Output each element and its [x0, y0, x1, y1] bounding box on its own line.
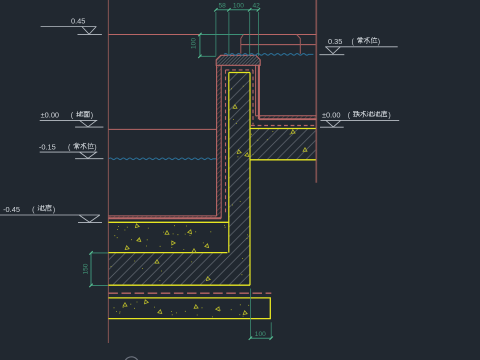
node notch left jamb [241, 35, 244, 54]
wire left cut line [107, 0, 109, 343]
wire footing bottom [108, 284, 250, 286]
svg-text:150: 150 [83, 263, 90, 274]
node level -0.45 pool bottom [0, 215, 102, 223]
svg-text:100: 100 [233, 3, 244, 10]
dimension 100 vertical left of coping [199, 35, 201, 57]
wire upper pool floor finish line 1 [256, 115, 317, 117]
svg-text:-0.45: -0.45 [3, 205, 20, 214]
node level ±0.00 drop pool bottom [320, 120, 399, 127]
wire wall left inner finish face [220, 65, 222, 218]
wire waterproofing dashed upper pool floor [251, 125, 316, 127]
wire ground level line [108, 128, 216, 130]
svg-text:): ) [388, 113, 390, 120]
node level 0.35 upper water [319, 47, 397, 55]
wire wall structural top [229, 72, 250, 74]
wire waterproofing dashed left face [225, 70, 227, 215]
svg-text:): ) [91, 113, 93, 120]
svg-text:±0.00: ±0.00 [41, 111, 59, 120]
svg-text:100: 100 [255, 331, 266, 338]
coping stone outline [216, 55, 260, 65]
node notch right jamb [297, 35, 301, 54]
coping stone hatch [216, 55, 260, 65]
wire weir wall top edge [108, 34, 316, 36]
node level -0.15 normal water [40, 152, 104, 159]
left finish strip hatch [217, 65, 222, 216]
svg-text:): ) [94, 145, 96, 152]
concrete texture dots [111, 86, 291, 317]
wire waterproofing dashed top [226, 69, 254, 71]
wire wall right inner finish face [255, 65, 257, 116]
wire lower pool slab top [108, 221, 228, 223]
dimension 100 cushion projection [249, 289, 251, 339]
wire upper pool slab top [250, 128, 316, 130]
wire lower pool water line [109, 158, 216, 160]
wire upper pool water line [224, 54, 313, 56]
wire wall right structural face [249, 73, 251, 286]
wire wall left structural face [228, 73, 230, 253]
svg-text:0.45: 0.45 [71, 17, 85, 26]
left floor finish hatch [108, 216, 221, 218]
dimension chain 58/100/42 top [216, 9, 259, 11]
wire wall right outer finish face [258, 65, 260, 119]
right floor finish hatch [256, 116, 317, 119]
svg-text:42: 42 [253, 3, 261, 10]
wire right cut line / weir outer face [315, 0, 317, 183]
cushion layer outline [108, 298, 270, 319]
node level ±0.00 ground [40, 120, 104, 127]
svg-text:): ) [378, 39, 380, 46]
wire waterproofing dashed under footing [108, 292, 271, 294]
wire upper pool floor finish line 2 [259, 118, 316, 120]
wire lower pool floor finish line 1 [108, 215, 216, 217]
concrete texture triangles [135, 224, 139, 228]
wire upper pool slab bottom [250, 159, 316, 161]
svg-text:): ) [53, 207, 55, 214]
wire lower pool slab bottom [108, 252, 227, 254]
wire lower pool floor finish line 2 [108, 217, 221, 219]
svg-text:±0.00: ±0.00 [322, 111, 340, 120]
concrete hatch: wall core, footing, upper-pool slab [108, 73, 316, 286]
node level 0.45 top of wall [41, 27, 102, 35]
wire weir crest line [241, 44, 316, 46]
svg-text:0.35: 0.35 [328, 37, 342, 46]
title bubble (clipped at bottom) [124, 357, 138, 360]
dimension 150 footing thickness [90, 253, 92, 286]
svg-text:-0.15: -0.15 [39, 143, 56, 152]
svg-text:100: 100 [190, 38, 197, 49]
wire wall left outer finish face [216, 65, 218, 216]
svg-text:58: 58 [219, 3, 227, 10]
wire waterproofing dashed right face [252, 70, 254, 125]
